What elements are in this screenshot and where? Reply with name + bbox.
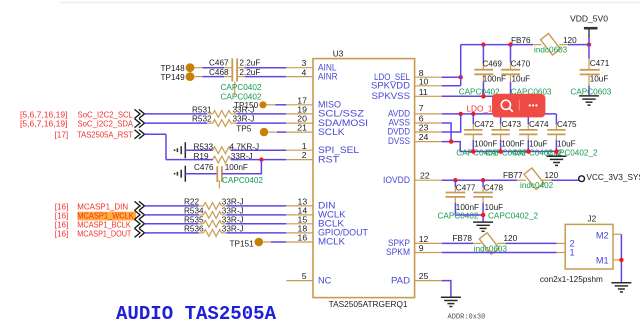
svg-text:10uF: 10uF <box>557 139 576 148</box>
wire PAD to ground <box>442 281 451 297</box>
svg-text:C478: C478 <box>484 183 504 192</box>
capacitor C472 100nF <box>456 114 497 157</box>
junction pin8/riser <box>459 75 463 79</box>
pin 2 stub <box>286 159 313 161</box>
capacitor C467 2.2uF <box>209 58 260 70</box>
capacitor C476 100nF <box>194 163 263 189</box>
svg-text:23: 23 <box>419 122 429 132</box>
junction dot over labels (C478 gnd) <box>481 213 485 217</box>
svg-text:9: 9 <box>419 243 424 253</box>
svg-text:MCASP1_DOUT: MCASP1_DOUT <box>77 229 131 238</box>
wire SPKM to J2 pin 1 <box>442 252 557 254</box>
wire pin 8 to riser <box>442 76 461 78</box>
pin 14 stub <box>286 214 313 216</box>
wire R19 to pin 2 <box>231 159 286 161</box>
junction dots over labels (bottom rail) <box>471 149 475 153</box>
ground under C475 <box>547 152 567 166</box>
wire cap bottoms <box>455 214 483 216</box>
pin 15 stub <box>286 223 313 225</box>
svg-text:FB76: FB76 <box>511 36 531 45</box>
net SoC_I2C2_SDA <box>20 120 133 129</box>
svg-text:con2x1-125pshm: con2x1-125pshm <box>540 275 603 284</box>
ground under C471 <box>579 96 599 105</box>
svg-text:C474: C474 <box>529 120 549 129</box>
capacitor C468 2.2uF <box>209 68 260 96</box>
capacitor C477 100nF <box>438 180 480 220</box>
wire C476 up to RST net <box>222 160 262 174</box>
pin 3 stub <box>286 67 313 69</box>
svg-text:C468: C468 <box>209 68 229 77</box>
ground under PAD <box>441 297 461 306</box>
svg-text:J2: J2 <box>588 215 597 224</box>
wire R531 to pin 19 <box>237 113 287 115</box>
ground under C477/C478 <box>473 215 493 231</box>
wire R22 to pin 13 <box>226 205 286 207</box>
wire SDA to R532 <box>145 122 208 124</box>
svg-text:SCLK: SCLK <box>318 127 345 137</box>
svg-text:C467: C467 <box>209 58 229 67</box>
net MCASP1_WCLK <box>55 211 135 220</box>
svg-text:TP148: TP148 <box>161 64 186 73</box>
resistor R19 33R-J <box>194 152 253 163</box>
svg-text:R534: R534 <box>184 207 204 216</box>
svg-text:SoC_I2C2_SDA: SoC_I2C2_SDA <box>78 120 134 129</box>
wire C467 to pin 3 <box>245 67 286 69</box>
junction gnd stem <box>554 149 558 153</box>
svg-text:33R-J: 33R-J <box>233 105 255 114</box>
pin 5 stub <box>286 280 313 282</box>
pin 9 stub <box>415 252 442 254</box>
junction C472 bottom <box>471 149 475 153</box>
offpage chevron DIN <box>135 201 145 210</box>
svg-text:CAPC0402_2: CAPC0402_2 <box>488 212 539 221</box>
svg-text:ADDR:0x30: ADDR:0x30 <box>448 313 486 321</box>
ferrite bead FB76 120 <box>511 34 577 56</box>
svg-text:MCLK: MCLK <box>318 237 346 247</box>
top rail wire <box>461 44 533 46</box>
svg-text:120: 120 <box>563 36 577 45</box>
pin 21 stub <box>286 131 313 133</box>
UI overlay toolbar (zoom button) <box>492 94 545 118</box>
pin 20 stub <box>286 122 313 124</box>
test point TP151 <box>230 238 272 249</box>
svg-text:[16]: [16] <box>55 202 69 211</box>
wire ground to C476 <box>185 173 217 175</box>
junction C474 bottom <box>526 149 530 153</box>
svg-text:U3: U3 <box>333 49 344 58</box>
pin 16 stub <box>286 241 313 243</box>
capacitor C471 10uF <box>570 45 611 97</box>
svg-text:16: 16 <box>298 233 308 243</box>
svg-text:[16]: [16] <box>55 229 69 238</box>
wire SPKP to FB78 <box>442 242 473 244</box>
test point TP5 <box>236 124 277 136</box>
svg-text:C473: C473 <box>502 120 522 129</box>
test point TP150 <box>234 101 275 110</box>
offpage chevron WCLK <box>135 210 145 219</box>
svg-text:4: 4 <box>302 68 307 78</box>
svg-text:1: 1 <box>570 248 575 258</box>
svg-text:24: 24 <box>419 132 429 142</box>
pin 1 stub <box>286 149 313 151</box>
pin 17 stub <box>286 104 313 106</box>
svg-text:SoC_I2C2_SCL: SoC_I2C2_SCL <box>78 110 134 119</box>
wire RST vertical down to R19 row <box>165 134 167 159</box>
svg-text:R531: R531 <box>192 105 212 114</box>
wire TP151 to pin 16 <box>271 241 286 243</box>
svg-text:100nF: 100nF <box>225 163 248 172</box>
svg-text:10: 10 <box>419 76 429 86</box>
svg-text:TP5: TP5 <box>236 124 251 133</box>
svg-text:PAD: PAD <box>391 275 410 285</box>
junction DVDD riser <box>459 112 463 116</box>
svg-text:C472: C472 <box>474 120 494 129</box>
svg-text:SPKVDD: SPKVDD <box>371 81 410 91</box>
net TAS2505A_RST <box>55 131 134 140</box>
junction C473 top <box>498 112 502 116</box>
wire R533 to pin 1 <box>231 149 286 151</box>
faint page border line <box>60 2 640 4</box>
svg-text:TP149: TP149 <box>161 73 186 82</box>
junction C473 bottom <box>498 149 502 153</box>
svg-text:120: 120 <box>545 171 559 180</box>
svg-text:33R-J: 33R-J <box>233 115 255 124</box>
resistor R533 4.7KR-J <box>194 142 260 153</box>
svg-text:MCASP1_DIN: MCASP1_DIN <box>77 202 128 211</box>
svg-text:TAS2505A_RST: TAS2505A_RST <box>77 131 133 140</box>
svg-text:SPKM: SPKM <box>386 247 410 257</box>
svg-text:TP151: TP151 <box>230 239 255 248</box>
op-amp U3 body <box>313 59 415 298</box>
svg-text:VDD_5V0: VDD_5V0 <box>570 15 608 24</box>
wire FB78 to J2 pin 2 <box>506 242 557 244</box>
svg-text:[16]: [16] <box>55 220 69 229</box>
svg-text:10uF: 10uF <box>529 139 548 148</box>
svg-text:7: 7 <box>419 103 424 113</box>
junction C472 top <box>471 112 475 116</box>
junction C477 top <box>453 178 457 182</box>
pin 19 stub <box>286 113 313 115</box>
test point TP148 <box>161 63 203 73</box>
wire BCLK to R535 <box>145 223 199 225</box>
svg-text:CAPC0402: CAPC0402 <box>438 212 479 221</box>
svg-text:100nF: 100nF <box>501 139 524 148</box>
svg-text:100nF: 100nF <box>474 139 497 148</box>
wire FB77 to terminal <box>552 179 579 181</box>
connector J2 body <box>540 215 622 285</box>
ground (sideways) at R533 <box>175 142 186 158</box>
riser to top rail <box>460 45 462 86</box>
svg-text:2: 2 <box>302 150 307 160</box>
svg-text:C475: C475 <box>557 120 577 129</box>
svg-text:indc0402: indc0402 <box>520 181 554 190</box>
svg-text:R535: R535 <box>184 215 204 224</box>
svg-text:[5,6,7,16,19]: [5,6,7,16,19] <box>20 110 68 119</box>
wire R534 to pin 14 <box>226 214 286 216</box>
wire DOUT to R536 <box>145 232 199 234</box>
junction C474 top <box>526 112 530 116</box>
wire ground to R533 <box>185 149 213 151</box>
svg-text:C471: C471 <box>590 59 610 68</box>
svg-text:DVDD: DVDD <box>388 127 411 137</box>
svg-text:SPKVSS: SPKVSS <box>372 91 411 101</box>
resistor R532 33R-J <box>192 115 254 127</box>
svg-text:2.2uF: 2.2uF <box>239 58 260 67</box>
svg-text:NC: NC <box>318 275 332 285</box>
wire WCLK to R534 <box>145 214 199 216</box>
wire pin 10 to riser <box>442 85 461 87</box>
wire J2 M2/M1 to ground <box>620 234 622 282</box>
svg-text:FB78: FB78 <box>452 234 472 243</box>
wire DIN to R22 <box>145 205 199 207</box>
offpage chevron SCL <box>135 109 145 118</box>
svg-text:FB77: FB77 <box>503 171 523 180</box>
svg-text:R22: R22 <box>184 198 199 207</box>
offpage chevron SDA <box>135 119 145 128</box>
svg-text:5: 5 <box>302 271 307 281</box>
junction VDD_5V0 <box>587 42 591 46</box>
svg-text:TAS2505ATRGERQ1: TAS2505ATRGERQ1 <box>329 300 408 309</box>
offpage chevron BCLK <box>135 219 145 228</box>
svg-text:AINR: AINR <box>318 72 338 82</box>
junction AVSS/DVSS <box>449 139 453 143</box>
wire R532 to pin 20 <box>237 122 287 124</box>
svg-text:[5,6,7,16,19]: [5,6,7,16,19] <box>20 120 68 129</box>
wire R536 to pin 18 <box>226 232 286 234</box>
pin 13 stub <box>286 205 313 207</box>
net MCASP1_BCLK <box>55 220 132 229</box>
wire DVSS to gnd rail <box>442 142 557 152</box>
svg-text:C477: C477 <box>456 183 476 192</box>
net MCASP1_DIN <box>55 202 128 211</box>
wire pin 11 / cap bottoms <box>442 95 511 97</box>
power symbol VDD_5V0 <box>570 15 608 45</box>
pin 7 stub <box>415 113 442 115</box>
terminal circle VCC_3V3_SYS <box>579 176 585 182</box>
capacitor C473 100nF <box>485 114 526 157</box>
svg-text:21: 21 <box>297 123 307 133</box>
svg-text:[16]: [16] <box>55 211 69 220</box>
capacitor C475 10uF <box>547 114 598 157</box>
wire RST horizontal <box>145 133 167 135</box>
svg-text:120: 120 <box>504 234 518 243</box>
pin 24 stub <box>415 141 442 143</box>
pin 8 stub <box>415 76 442 78</box>
net MCASP1_DOUT <box>55 229 132 238</box>
svg-text:RST: RST <box>318 154 339 164</box>
svg-text:25: 25 <box>419 271 429 281</box>
pin 4 stub <box>286 76 313 78</box>
capacitor C478 10uF <box>473 180 538 220</box>
wire C468 to pin 4 <box>245 76 286 78</box>
junction C469 bottom (over label) <box>481 94 485 98</box>
svg-text:CAPC0402: CAPC0402 <box>222 176 263 185</box>
svg-text:2.2uF: 2.2uF <box>239 68 260 77</box>
wire R535 to pin 15 <box>226 223 286 225</box>
resistor R535 33R-J <box>184 215 244 227</box>
svg-text:IOVDD: IOVDD <box>383 175 410 185</box>
offpage chevron DOUT <box>135 228 145 237</box>
svg-text:10uF: 10uF <box>512 75 531 84</box>
wire DVDD up to AVDD rail <box>442 114 461 132</box>
capacitor C469 100nF <box>459 45 506 97</box>
pin 23 stub <box>415 131 442 133</box>
svg-text:C470: C470 <box>511 60 531 69</box>
wire TP150 to pin 17 <box>275 104 286 106</box>
wire TP149 to C468 <box>203 76 225 78</box>
wire TP5 to pin 21 <box>277 131 286 133</box>
pin 12 stub <box>415 242 442 244</box>
pin 25 stub <box>415 280 442 282</box>
svg-text:100nF: 100nF <box>483 75 506 84</box>
svg-text:M2: M2 <box>596 230 609 240</box>
resistor R22 33R-J <box>184 198 244 210</box>
svg-text:DVSS: DVSS <box>388 136 410 146</box>
highlight on MCASP1_WCLK <box>78 212 137 221</box>
svg-text:C469: C469 <box>482 60 502 69</box>
svg-text:AUDIO TAS2505A: AUDIO TAS2505A <box>116 303 276 324</box>
junction M1 <box>619 258 623 262</box>
offpage chevron RST <box>135 130 145 139</box>
svg-text:VCC_3V3_SYS: VCC_3V3_SYS <box>587 173 640 182</box>
junction C470 top <box>508 42 512 46</box>
svg-text:10uF: 10uF <box>590 74 609 83</box>
wire SCL to R531 <box>145 113 208 115</box>
svg-text:CAPC0402: CAPC0402 <box>221 83 262 92</box>
svg-text:R19: R19 <box>194 152 209 161</box>
svg-text:22: 22 <box>420 171 430 181</box>
wire AVSS down to DVSS row <box>442 123 451 142</box>
ground (sideways) at C476 <box>175 166 186 182</box>
wire FB76 to VDD junction <box>568 44 589 46</box>
svg-text:11: 11 <box>419 87 428 97</box>
ferrite bead FB78 120 <box>452 233 517 255</box>
test point TP149 <box>161 72 203 82</box>
resistor R534 33R-J <box>184 207 244 219</box>
svg-text:R536: R536 <box>184 225 204 234</box>
junction C469 bottom <box>481 94 485 98</box>
pin 22 stub <box>415 179 442 181</box>
pin 18 stub <box>286 232 313 234</box>
pin 11 stub <box>415 95 442 97</box>
junction C469 top <box>481 42 485 46</box>
wire RST to R19 <box>166 159 213 161</box>
junction C478 top <box>481 178 485 182</box>
pin 10 stub <box>415 85 442 87</box>
svg-text:33R-J: 33R-J <box>222 215 244 224</box>
wire TP148 to C467 <box>203 67 225 69</box>
svg-text:M1: M1 <box>596 256 609 266</box>
svg-text:MCASP1_BCLK: MCASP1_BCLK <box>77 220 131 229</box>
ferrite bead FB77 120 <box>503 168 559 190</box>
capacitor C470 10uF <box>501 45 552 97</box>
ground under J2 <box>611 283 631 292</box>
svg-text:R533: R533 <box>194 142 214 151</box>
junction R19/C476 <box>259 157 263 161</box>
svg-text:[17]: [17] <box>55 131 69 140</box>
svg-text:C476: C476 <box>194 163 214 172</box>
svg-text:R532: R532 <box>192 115 212 124</box>
capacitor C474 10uF <box>512 114 563 157</box>
wire IOVDD rail <box>442 179 517 181</box>
net SoC_I2C2_SCL <box>20 110 133 119</box>
wire AVDD rail <box>442 113 557 115</box>
junction gnd C478 <box>481 213 485 217</box>
svg-text:MCASP1_WCLK: MCASP1_WCLK <box>77 211 134 220</box>
pin 6 stub <box>415 122 442 124</box>
svg-text:indc0603: indc0603 <box>534 45 568 54</box>
resistor R531 33R-J <box>192 105 254 117</box>
resistor R536 33R-J <box>184 225 244 237</box>
